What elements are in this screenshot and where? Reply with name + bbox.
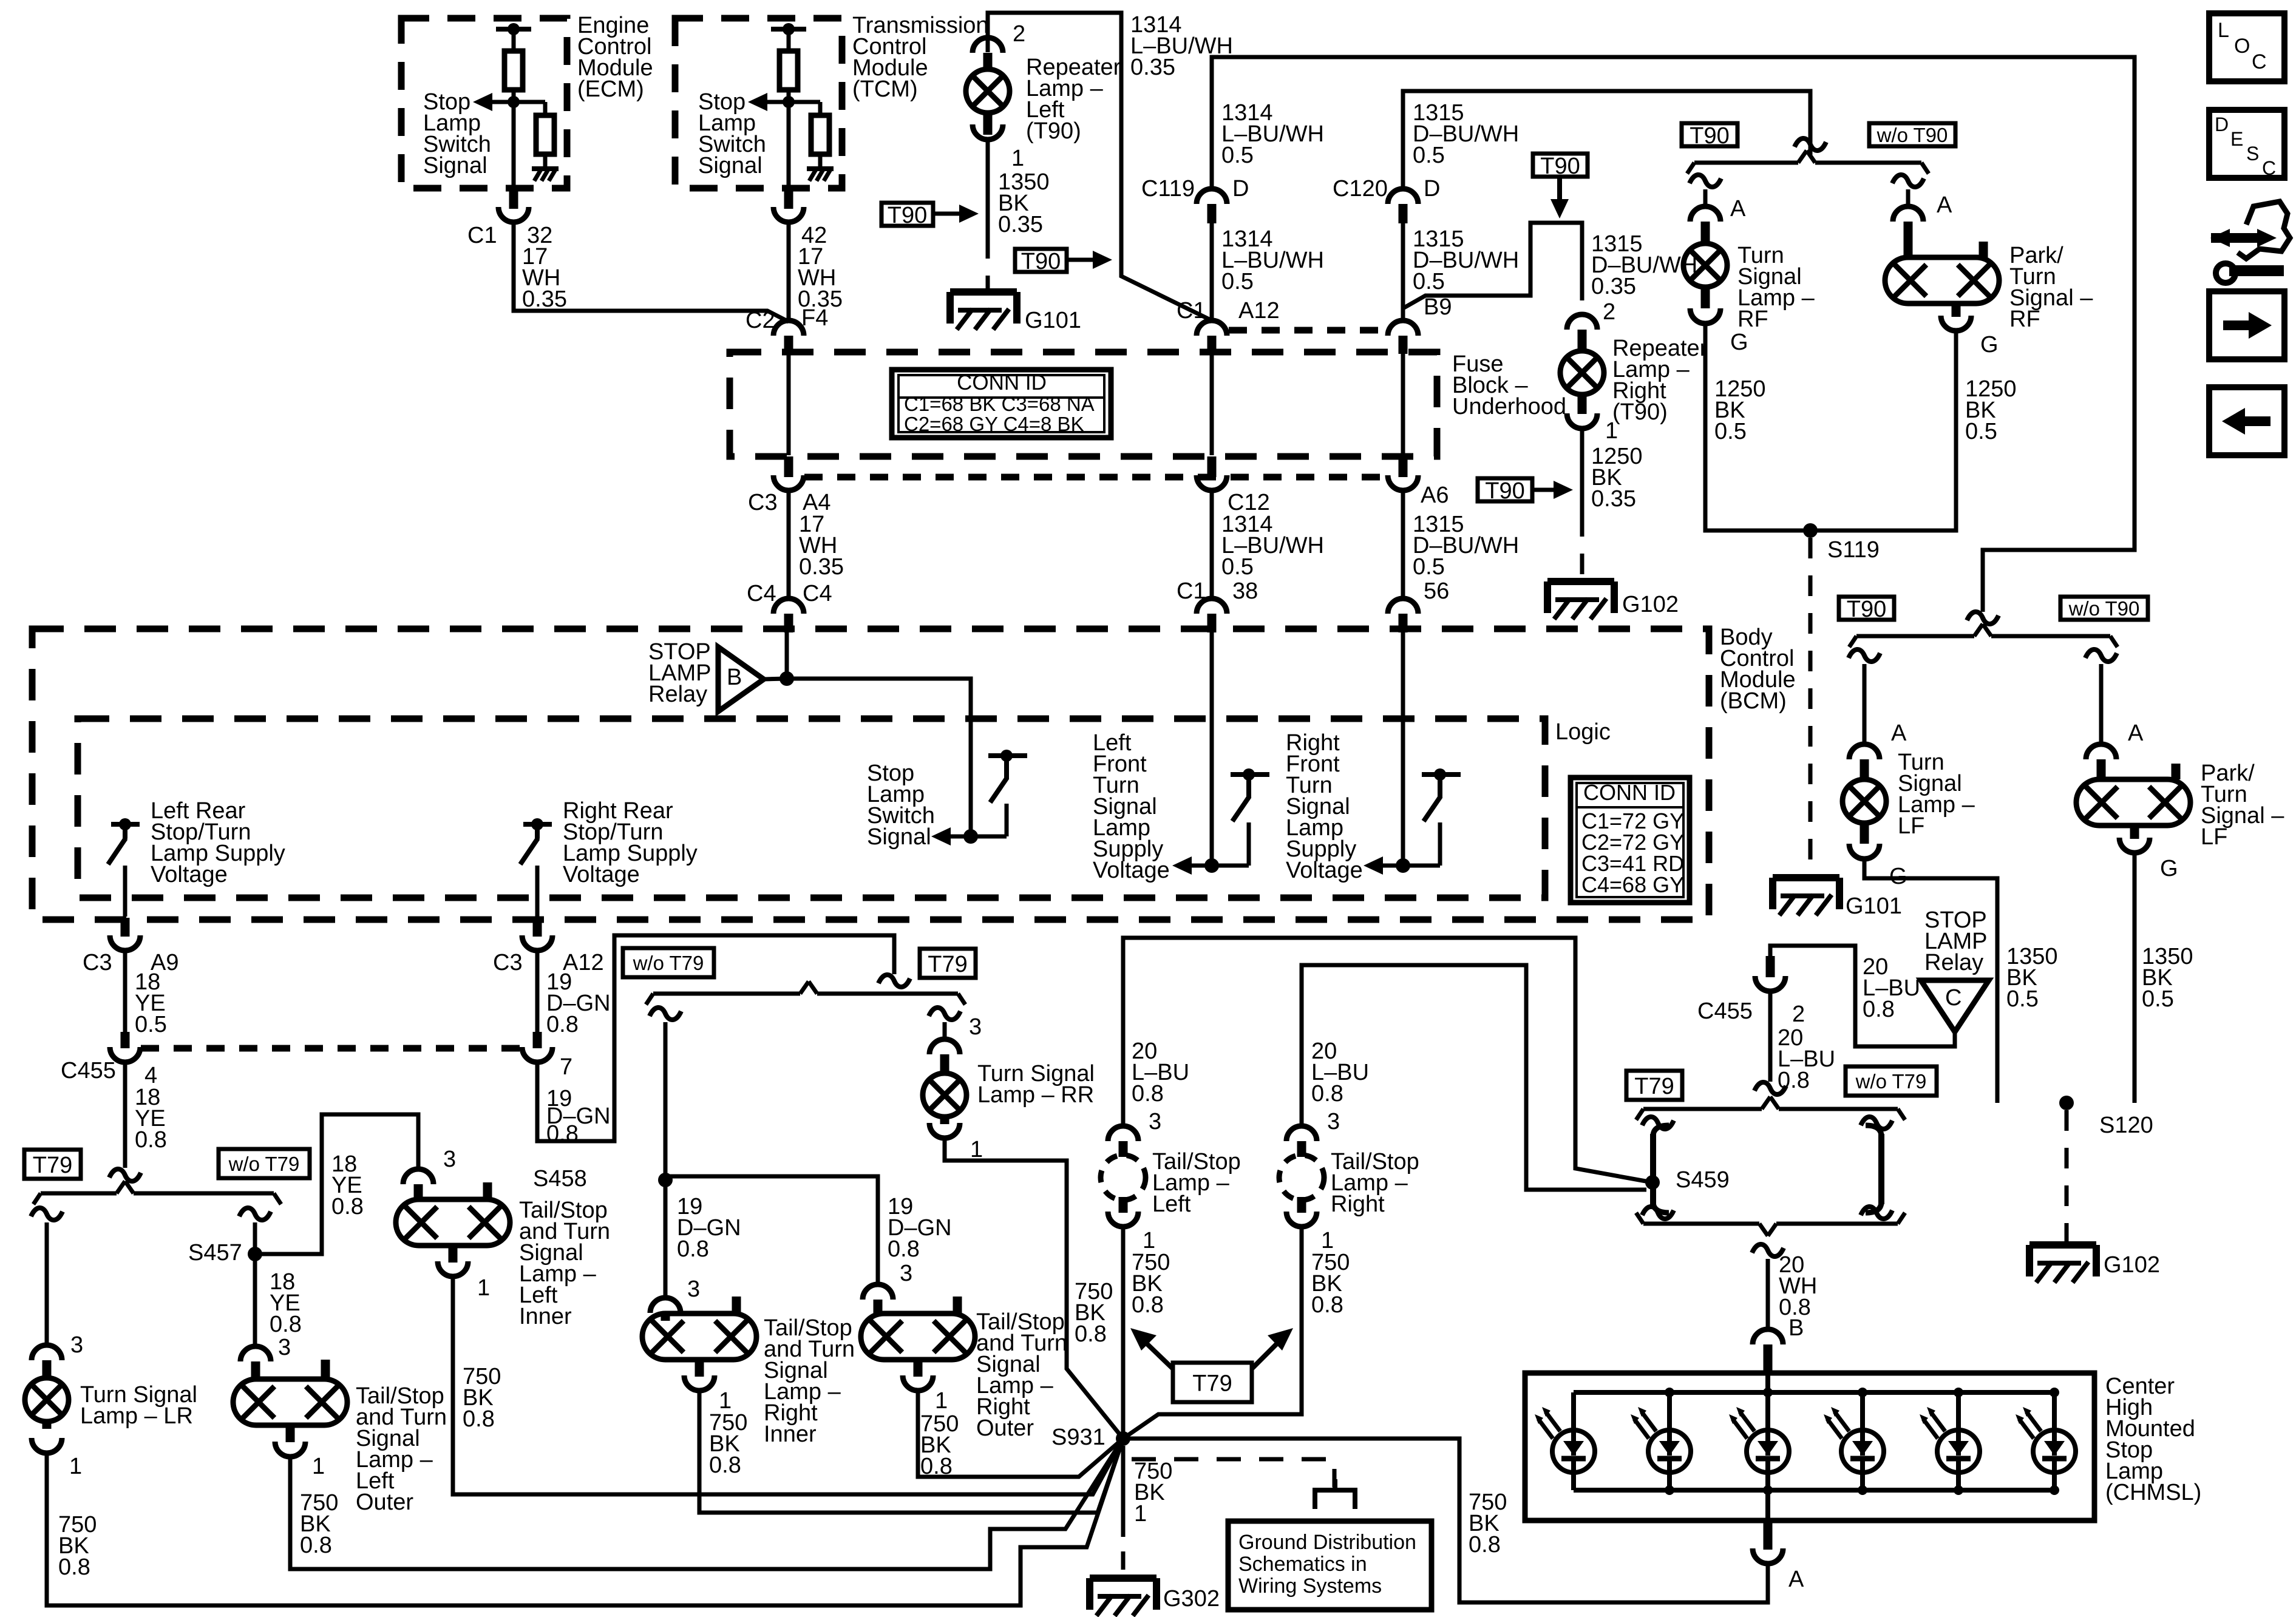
connector G turn signal RF xyxy=(1690,308,1720,324)
connector pin 1 left outer xyxy=(275,1442,305,1457)
splice S458 xyxy=(658,1173,673,1187)
wire park/turn LF to S120 xyxy=(2133,853,2137,1103)
pin stub C12 xyxy=(1207,456,1217,477)
connector 56 into BCM xyxy=(1388,598,1418,614)
junction dot right front supply xyxy=(1396,858,1410,873)
svg-text:G302: G302 xyxy=(1163,1586,1220,1612)
wire tail/stop left to S931 xyxy=(1121,1227,1126,1439)
connector pin 7 xyxy=(522,1047,552,1062)
svg-text:S457: S457 xyxy=(188,1240,242,1266)
svg-text:S459: S459 xyxy=(1676,1167,1730,1193)
svg-text:(BCM): (BCM) xyxy=(1720,688,1787,714)
pin stub park/turn RF bottom xyxy=(1952,303,1961,317)
svg-text:C3: C3 xyxy=(83,950,112,975)
squiggle C455 rear feed xyxy=(109,1169,141,1181)
connector pin 1 tail/stop right xyxy=(1286,1212,1317,1227)
resistor ECM pull-down xyxy=(536,115,554,154)
wire CHMSL bus to pin A xyxy=(1765,1490,1770,1520)
svg-text:1: 1 xyxy=(477,1275,490,1301)
junction dot stop lamp switch xyxy=(963,829,978,844)
pin stub CHMSL A xyxy=(1764,1520,1773,1550)
dotted connector row C1/A12 - B9 xyxy=(1229,327,1390,334)
svg-text:C: C xyxy=(2252,50,2267,73)
connector pin 3 left inner xyxy=(403,1169,433,1184)
svg-text:L: L xyxy=(2218,19,2229,42)
wire LF T90 branch to A xyxy=(1863,664,1867,744)
wire C1/A12 chain inside fuse block xyxy=(1210,354,1214,455)
svg-text:0.5: 0.5 xyxy=(2142,986,2174,1012)
wire tail/stop right to S931 xyxy=(1123,1227,1302,1439)
ground TCM internal xyxy=(807,166,834,171)
LED D4 CHMSL xyxy=(1860,1392,1865,1430)
svg-text:LF: LF xyxy=(1898,813,1924,839)
svg-text:2: 2 xyxy=(1013,21,1025,47)
arrow T79 to tail right xyxy=(1252,1338,1282,1369)
svg-text:56: 56 xyxy=(1424,578,1449,604)
squiggle LF feed xyxy=(1967,612,1999,624)
svg-text:C455: C455 xyxy=(61,1058,116,1083)
pin stubs park/turn LF top xyxy=(2097,764,2106,779)
lamp Tail/Stop Lamp - Right xyxy=(1279,1155,1324,1200)
connector pin 3 tail/stop right xyxy=(1286,1126,1317,1141)
svg-text:S: S xyxy=(2246,143,2259,164)
ground G101 (S119) xyxy=(1773,874,1839,881)
brace T90-w/o T90 front LF xyxy=(1856,634,1974,639)
connector A park/turn RF xyxy=(1893,206,1923,222)
wire brace to turn RR xyxy=(943,1022,947,1039)
svg-text:Lamp – RR: Lamp – RR xyxy=(977,1082,1094,1108)
connector pin 2 repeater lamp left xyxy=(973,38,1003,53)
wire repeater left top feed xyxy=(988,13,1212,320)
svg-text:T90: T90 xyxy=(888,203,927,228)
connector pin 1 right outer xyxy=(903,1375,933,1391)
pin stub turn RF bottom xyxy=(1701,287,1710,308)
wire LR branch down xyxy=(45,1222,49,1345)
svg-text:T90: T90 xyxy=(1690,123,1729,149)
lamp Tail/Stop Lamp - Left xyxy=(1101,1155,1146,1200)
wire C12 to 38 xyxy=(1210,490,1214,598)
connector pin 3 turn RR xyxy=(929,1039,960,1054)
LED D1 CHMSL xyxy=(1571,1392,1576,1430)
squiggle S458 branch xyxy=(650,1008,681,1020)
svg-text:C455: C455 xyxy=(1697,998,1753,1024)
icon box right arrow xyxy=(2209,291,2284,359)
svg-text:Logic: Logic xyxy=(1555,719,1611,745)
connector C1 at ECM xyxy=(498,207,529,222)
pin stub A4 xyxy=(784,456,793,477)
connector B9 fuse block xyxy=(1388,320,1418,336)
connector 38 into BCM xyxy=(1197,598,1227,614)
svg-text:Signal: Signal xyxy=(698,153,763,178)
svg-text:G101: G101 xyxy=(1846,893,1902,919)
switch right rear stop/turn (Logic) xyxy=(523,822,552,827)
wire turn RR to S931 xyxy=(945,1138,1123,1439)
svg-text:0.5: 0.5 xyxy=(135,1012,167,1037)
junction dot stop lamp node xyxy=(779,671,794,686)
pin stub right inner bottom xyxy=(695,1360,704,1377)
wire TCM resistor to node xyxy=(787,90,791,188)
svg-text:0.8: 0.8 xyxy=(1132,1081,1164,1107)
svg-text:Lamp – LR: Lamp – LR xyxy=(80,1403,193,1429)
wire left outer to S931 xyxy=(290,1439,1123,1569)
svg-text:3: 3 xyxy=(278,1335,291,1360)
svg-text:C2=68 GY C4=8 BK: C2=68 GY C4=8 BK xyxy=(904,413,1084,435)
svg-text:RF: RF xyxy=(2009,307,2040,332)
arrow T90 to 1314 wire xyxy=(1067,258,1096,262)
wire 56 into BCM to arrow xyxy=(1401,632,1405,866)
wire TCM branch to resistor 2 xyxy=(789,100,820,104)
svg-text:Inner: Inner xyxy=(764,1422,817,1447)
svg-text:CONN ID: CONN ID xyxy=(1583,780,1676,805)
wire C120 to B9 xyxy=(1401,223,1405,320)
pin stub left inner bottom xyxy=(449,1246,458,1263)
svg-text:0.8: 0.8 xyxy=(1863,997,1895,1022)
svg-text:G102: G102 xyxy=(1622,592,1679,617)
svg-text:0.35: 0.35 xyxy=(1130,55,1175,80)
pin stub left outer top-right xyxy=(321,1360,330,1379)
box Logic xyxy=(78,719,1545,898)
ECM internal supply rail xyxy=(496,27,531,32)
wire branch B9 to repeater right xyxy=(1403,223,1582,308)
wire turn LF to S120 xyxy=(1864,859,1997,1103)
wire left inner to S931 xyxy=(453,1276,1123,1494)
arrow stop lamp switch signal xyxy=(947,835,971,839)
wire C120 riser to 2982 rail xyxy=(1403,91,1810,189)
pin stub tail/stop left bottom xyxy=(1119,1197,1128,1213)
connector C120 D xyxy=(1388,189,1418,204)
svg-text:A: A xyxy=(1937,192,1952,218)
lamp Turn Signal Lamp - RF xyxy=(1683,243,1727,287)
connector pin 1 turn LR xyxy=(32,1438,62,1453)
icon box DESC xyxy=(2209,110,2284,178)
ground G102 (front) xyxy=(1547,578,1614,585)
wire TCM resistor 2 to ground xyxy=(818,154,823,169)
wire C4 down to node xyxy=(785,632,789,679)
wire S458 down to right inner xyxy=(664,1180,668,1298)
svg-text:1: 1 xyxy=(935,1388,948,1414)
wire CHMSL A to ground run xyxy=(1766,1564,1770,1578)
wire S931 to CHMSL ground xyxy=(1123,1439,1768,1602)
svg-text:S931: S931 xyxy=(1051,1425,1106,1450)
wire ECM C1 to C2/F4 xyxy=(514,222,789,322)
wire A12 to pin 7 xyxy=(535,951,540,1032)
svg-text:Schematics in: Schematics in xyxy=(1238,1553,1367,1576)
svg-text:A6: A6 xyxy=(1421,483,1449,508)
pin stub C3/A12 rear xyxy=(533,918,542,937)
squiggle w/o T79 rear feed xyxy=(878,975,910,987)
svg-text:O: O xyxy=(2234,35,2250,58)
svg-text:(T90): (T90) xyxy=(1612,399,1668,425)
lamp Turn Signal Lamp - LF xyxy=(1843,779,1886,823)
svg-text:A: A xyxy=(1891,720,1907,746)
svg-text:0.5: 0.5 xyxy=(1413,143,1445,168)
brace S459 top xyxy=(1643,1107,1762,1111)
svg-text:0.8: 0.8 xyxy=(58,1554,90,1580)
connector C3/A9 xyxy=(110,935,140,951)
svg-text:w/o T79: w/o T79 xyxy=(228,1153,300,1175)
svg-text:0.8: 0.8 xyxy=(1311,1081,1343,1107)
svg-text:G: G xyxy=(2160,856,2178,881)
dashed wire S119 to G101 rear xyxy=(1809,538,1813,874)
junction dot TCM rail xyxy=(783,23,795,35)
brace T79-w/o T79 rear left xyxy=(653,992,800,996)
wire brace to S458 xyxy=(664,1022,668,1176)
squiggle RF w/o T90 branch xyxy=(1892,175,1924,187)
svg-text:7: 7 xyxy=(560,1054,572,1080)
squiggle S457 branch xyxy=(239,1208,271,1220)
squiggle LR branch xyxy=(31,1208,63,1220)
connector G turn signal LF xyxy=(1849,844,1880,859)
bracket ground distribution link xyxy=(1315,1490,1355,1509)
wire brace feed from relay C455 2 xyxy=(1768,991,1773,1082)
tag box T90 (LF) xyxy=(1839,597,1894,620)
connector pin 3 tail/stop left xyxy=(1108,1126,1138,1141)
svg-text:C: C xyxy=(2262,157,2276,179)
tag box T90 -> repeater left wire xyxy=(881,203,933,226)
svg-text:S458: S458 xyxy=(533,1166,587,1192)
connector C1 at TCM pin 42 xyxy=(773,207,804,222)
module box ECM xyxy=(401,18,567,188)
svg-text:0.8: 0.8 xyxy=(546,1012,579,1037)
svg-text:D: D xyxy=(2215,114,2229,135)
svg-text:A: A xyxy=(2128,720,2144,746)
resistor TCM pull-down xyxy=(811,115,829,154)
svg-text:T79: T79 xyxy=(1634,1074,1674,1099)
pin stub right outer top-right xyxy=(953,1297,962,1315)
lamp Repeater Lamp - Left xyxy=(966,69,1010,113)
ground ECM internal xyxy=(532,166,559,171)
tag box T90 -> repeater right wire xyxy=(1478,478,1532,501)
wire 38 into BCM to arrow xyxy=(1210,632,1214,866)
squiggle front RF feed xyxy=(1795,138,1826,151)
tag box T90 -> 1314 wire xyxy=(1015,249,1067,272)
svg-text:1: 1 xyxy=(1605,418,1618,444)
wire park/turn RF to S119 xyxy=(1810,331,1956,531)
pin stub TCM C1 xyxy=(784,189,793,209)
wire turn LR to S931 xyxy=(47,1439,1123,1605)
svg-text:B: B xyxy=(727,665,742,690)
wire right outer to S931 xyxy=(918,1391,1123,1477)
pin stub ECM C1 xyxy=(509,189,518,209)
pin stubs park/turn RF top xyxy=(1904,242,1913,257)
connector C2/F4 fuse block xyxy=(773,320,804,336)
svg-text:0.8: 0.8 xyxy=(1778,1068,1810,1093)
wire LF w/o branch to A xyxy=(2099,664,2104,744)
svg-text:3: 3 xyxy=(1149,1109,1161,1134)
pin stub turn LR bottom xyxy=(42,1422,52,1429)
bracket connector S459 left xyxy=(1650,1134,1656,1204)
svg-text:0.35: 0.35 xyxy=(522,286,567,312)
svg-text:Voltage: Voltage xyxy=(151,862,228,887)
svg-text:C4=68 GY: C4=68 GY xyxy=(1581,872,1684,897)
svg-text:A12: A12 xyxy=(1238,298,1280,324)
wire turn RF to S119 xyxy=(1705,324,1810,531)
svg-text:0.35: 0.35 xyxy=(1591,486,1636,512)
tag box T90 (RF) xyxy=(1682,123,1737,146)
lamp Repeater Lamp - Right xyxy=(1560,351,1604,395)
connector pin 1 repeater lamp right xyxy=(1567,413,1597,429)
lamp Tail/Stop and Turn Signal Lamp - Right Inner xyxy=(642,1314,756,1360)
svg-text:T90: T90 xyxy=(1485,478,1524,504)
junction dot TCM node xyxy=(783,96,795,108)
ground G102 (S120) xyxy=(2029,1241,2096,1249)
svg-text:0.8: 0.8 xyxy=(300,1533,332,1558)
pin stub park/turn LF bottom xyxy=(2130,825,2139,839)
svg-text:RF: RF xyxy=(1737,307,1768,332)
connector A park/turn LF xyxy=(2086,744,2116,759)
svg-text:E: E xyxy=(2230,128,2243,150)
connector pin 3 right outer xyxy=(863,1284,893,1300)
lamp Turn Signal Lamp - LR xyxy=(25,1378,69,1422)
wire C119 riser to top rail xyxy=(1212,57,2135,612)
wire repeater right to ground xyxy=(1580,429,1584,516)
wire A9 to C455 xyxy=(123,951,127,1032)
svg-text:Underhood: Underhood xyxy=(1452,394,1566,419)
pin stub C455 2 xyxy=(1766,956,1775,977)
LED D3 CHMSL xyxy=(1765,1392,1770,1430)
pin stub tail/stop right bottom xyxy=(1297,1197,1306,1213)
connector A turn signal LF xyxy=(1849,744,1880,759)
table CONN ID fuse block xyxy=(892,370,1111,438)
wire CHMSL internal B to bus xyxy=(1765,1373,1770,1392)
svg-text:3: 3 xyxy=(443,1147,456,1172)
LED D5 CHMSL xyxy=(1956,1392,1961,1430)
svg-text:C4: C4 xyxy=(747,581,776,606)
connector pin 2 repeater lamp right xyxy=(1567,314,1597,330)
svg-text:A: A xyxy=(1730,196,1746,222)
svg-text:CONN ID: CONN ID xyxy=(957,371,1047,395)
svg-text:Signal: Signal xyxy=(867,824,931,850)
svg-text:w/o T79: w/o T79 xyxy=(1855,1070,1927,1093)
wire S457 down to left outer xyxy=(253,1258,257,1345)
wire tail/stop left feed xyxy=(1123,938,1652,1182)
wire TCM to connector F4 xyxy=(787,222,791,320)
svg-text:T79: T79 xyxy=(33,1153,72,1178)
splice S119 xyxy=(1803,523,1818,538)
connector pin B CHMSL xyxy=(1753,1329,1783,1344)
svg-text:Voltage: Voltage xyxy=(1286,858,1363,883)
CHMSL top bus xyxy=(1574,1390,2054,1395)
svg-text:B: B xyxy=(1788,1315,1804,1341)
squiggle turn RR branch xyxy=(929,1008,960,1020)
svg-text:0.8: 0.8 xyxy=(270,1312,302,1337)
svg-text:D: D xyxy=(1424,176,1440,202)
arrow T79 to tail left xyxy=(1141,1338,1173,1369)
arrow T90 to repeater right wire xyxy=(1532,488,1557,492)
dotted connector row C455 xyxy=(141,1045,522,1052)
svg-text:C4: C4 xyxy=(803,581,832,606)
svg-text:0.5: 0.5 xyxy=(1965,419,1997,444)
pin stub right outer bottom xyxy=(914,1360,923,1377)
switch left rear stop/turn (Logic) xyxy=(111,822,140,827)
svg-text:3: 3 xyxy=(70,1332,83,1358)
svg-text:0.8: 0.8 xyxy=(1075,1321,1107,1347)
connector C455 pin 2 xyxy=(1755,976,1785,991)
svg-text:T90: T90 xyxy=(1540,154,1580,179)
connector C3/A4 xyxy=(773,475,804,490)
tag box w/o T90 (RF) xyxy=(1869,123,1955,146)
connector pin 3 turn LR xyxy=(32,1345,62,1360)
brace S459 bottom xyxy=(1643,1222,1759,1226)
svg-text:C1: C1 xyxy=(467,223,497,248)
dashed wire S120 to G102 rear xyxy=(2065,1110,2069,1241)
connector pin 3 left outer xyxy=(240,1346,271,1361)
svg-text:0.5: 0.5 xyxy=(1714,419,1747,444)
wire ECM rail to resistor xyxy=(512,29,516,51)
wire S459 to CHMSL B xyxy=(1766,1259,1770,1329)
squiggle S459 bottom out xyxy=(1752,1244,1784,1256)
LED D6 CHMSL xyxy=(2052,1392,2057,1430)
svg-text:C: C xyxy=(1945,985,1961,1011)
svg-text:0.5: 0.5 xyxy=(1221,554,1254,580)
connector C12 xyxy=(1197,475,1227,490)
svg-text:1: 1 xyxy=(312,1454,325,1479)
svg-text:0.35: 0.35 xyxy=(1591,274,1636,299)
lamp Tail/Stop and Turn Signal Lamp - Right Outer xyxy=(861,1314,975,1360)
wire C2 chain inside fuse block xyxy=(787,354,791,455)
lamp Tail/Stop and Turn Signal Lamp - Left Outer xyxy=(233,1379,347,1425)
pin stub right inner top-right xyxy=(732,1297,741,1315)
svg-text:1: 1 xyxy=(1011,146,1024,171)
pin stub turn RR bottom xyxy=(940,1117,949,1124)
svg-text:(TCM): (TCM) xyxy=(852,76,918,102)
tag box T79 (rear left) xyxy=(920,949,976,978)
arrow Stop Lamp Switch Signal (ECM) xyxy=(489,100,514,104)
wire S457 to left inner xyxy=(255,1114,418,1254)
lamp Park/Turn Signal - RF xyxy=(1885,257,1999,303)
tag box w/o T79 (rear left) xyxy=(623,948,714,977)
splice S931 xyxy=(1116,1431,1130,1446)
lamp Turn Signal Lamp - RR xyxy=(923,1073,966,1117)
svg-text:C1: C1 xyxy=(1177,298,1206,324)
svg-text:Ground Distribution: Ground Distribution xyxy=(1238,1531,1416,1554)
svg-text:C1=68 BK C3=68 NA: C1=68 BK C3=68 NA xyxy=(904,393,1095,415)
wire A4 to C4 xyxy=(787,490,791,598)
svg-text:F4: F4 xyxy=(801,305,828,331)
ground G101 (front) xyxy=(950,288,1017,296)
junction dot ECM rail xyxy=(508,23,520,35)
wire RF w/o branch to A xyxy=(1906,189,1911,206)
connector C3/A12 rear xyxy=(522,935,552,951)
svg-text:Voltage: Voltage xyxy=(1093,858,1170,883)
tag box w/o T90 (LF) xyxy=(2060,597,2148,620)
svg-text:G101: G101 xyxy=(1025,308,1081,333)
squiggle LF w/o T90 branch xyxy=(2085,649,2117,662)
tag box T90 above repeater right xyxy=(1533,154,1588,177)
dotted connector row A4 - C12 - A6 xyxy=(804,474,1390,481)
relay B triangle xyxy=(718,647,764,711)
module box TCM xyxy=(675,18,842,188)
connector C1/A12 fuse block xyxy=(1197,320,1227,336)
junction dot left front supply xyxy=(1204,858,1219,873)
icon box left arrow xyxy=(2209,387,2284,455)
wire ECM branch to resistor 2 xyxy=(514,100,545,104)
wire repeater left to ground xyxy=(986,140,990,238)
svg-text:0.8: 0.8 xyxy=(1311,1292,1343,1318)
LED D2 CHMSL xyxy=(1667,1392,1672,1430)
TCM internal supply rail xyxy=(771,27,806,32)
dashed wire repeater left to G101 xyxy=(986,238,990,288)
connector C119 D xyxy=(1197,189,1227,204)
wire resistor 2 to ground xyxy=(543,154,548,169)
connector pin 1 turn RR xyxy=(929,1123,960,1138)
svg-text:D: D xyxy=(1232,176,1249,202)
junction dot ECM node xyxy=(508,96,520,108)
wire brace to S457 xyxy=(253,1222,257,1250)
squiggle LF T90 branch xyxy=(1849,649,1880,662)
svg-text:3: 3 xyxy=(969,1014,982,1040)
svg-text:3: 3 xyxy=(900,1261,912,1286)
